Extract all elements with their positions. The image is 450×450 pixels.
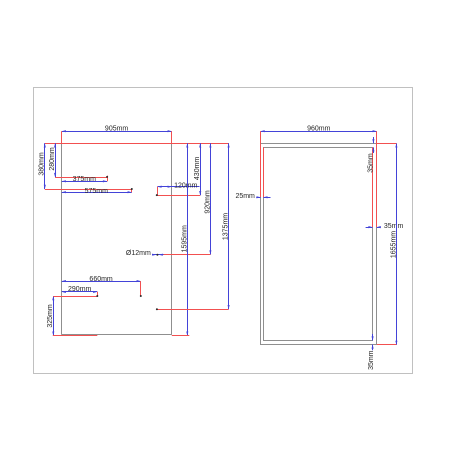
dimension 325mm (bottom hole row from bottom edge) (53, 296, 55, 336)
svg-text:575mm: 575mm (85, 188, 109, 195)
svg-text:905mm: 905mm (105, 126, 129, 133)
dimension 290mm (bottom hole 1 x) (62, 291, 98, 293)
hole H3 (120 from right, 430 down) (156, 194, 158, 196)
svg-text:920mm: 920mm (204, 190, 211, 214)
dimension 430mm (hole row from top) (200, 143, 202, 195)
dimension 1655mm (door height, right) (396, 143, 398, 345)
svg-text:380mm: 380mm (39, 152, 46, 176)
right view: door outer outline 960x1655 (261, 144, 377, 345)
hole H5 (120 from right, 1375 down) (156, 308, 158, 310)
red extension at 380mm hole row (45, 189, 132, 191)
hole H1 (375,280) (106, 176, 108, 178)
svg-text:325mm: 325mm (47, 304, 54, 328)
red extension along inner left edge (263, 147, 265, 197)
red extension along outer left edge (260, 143, 262, 197)
sheet border frame (34, 88, 413, 374)
svg-text:Ø12mm: Ø12mm (126, 250, 151, 257)
svg-text:25mm: 25mm (235, 193, 255, 200)
dimension 660mm (bottom hole 2 x) (62, 281, 141, 283)
dimension 35mm (bottom frame inset) (372, 334, 374, 340)
svg-text:35mm: 35mm (384, 223, 404, 230)
hole H6 (290, 325 up) (96, 295, 98, 297)
dimension 120mm (hole column from right edge) (157, 186, 199, 188)
left view: panel outline (61, 143, 63, 334)
svg-text:290mm: 290mm (68, 286, 92, 293)
svg-text:1375mm: 1375mm (223, 213, 230, 240)
svg-text:35mm: 35mm (367, 153, 374, 173)
dimension 575mm (hole 2 x) (62, 192, 132, 194)
svg-text:660mm: 660mm (89, 276, 113, 283)
svg-text:430mm: 430mm (194, 157, 201, 181)
dimension 905mm (panel width, top) (62, 131, 172, 133)
hole H2 (575,380) (131, 188, 133, 190)
red extension line at panel top edge (45, 143, 229, 145)
dimension 35mm (right frame inset) (366, 227, 373, 229)
svg-text:1655mm: 1655mm (390, 231, 397, 258)
hole H4 (120 from right, 920 down) &#216;12 (156, 254, 158, 256)
dimension 1375mm (hole row from top) (228, 143, 230, 309)
dimension 920mm (hole row from top) (210, 143, 212, 254)
svg-text:1595mm: 1595mm (181, 225, 188, 252)
dimension 25mm (left frame inset) (256, 197, 260, 199)
red extension at 280mm hole row (55, 177, 107, 179)
svg-text:280mm: 280mm (49, 147, 56, 171)
dimension 375mm (top-left hole x) (62, 181, 107, 183)
dimension 960mm (door width, top) (261, 131, 377, 133)
red extension along inner right edge (372, 147, 374, 227)
svg-text:120mm: 120mm (174, 182, 198, 189)
dimension 1595mm (panel height) (187, 143, 189, 335)
dimension 380mm (left, to hole row 2) (44, 143, 46, 189)
svg-text:960mm: 960mm (307, 126, 331, 133)
dimension 35mm (top frame inset) (373, 137, 375, 143)
right view: door inner frame line (264, 148, 373, 341)
hole H7 (660, 325 up) (140, 295, 142, 297)
svg-text:35mm: 35mm (368, 350, 375, 370)
svg-text:375mm: 375mm (73, 176, 97, 183)
dimension 280mm (left, to hole row 1) (55, 143, 57, 177)
